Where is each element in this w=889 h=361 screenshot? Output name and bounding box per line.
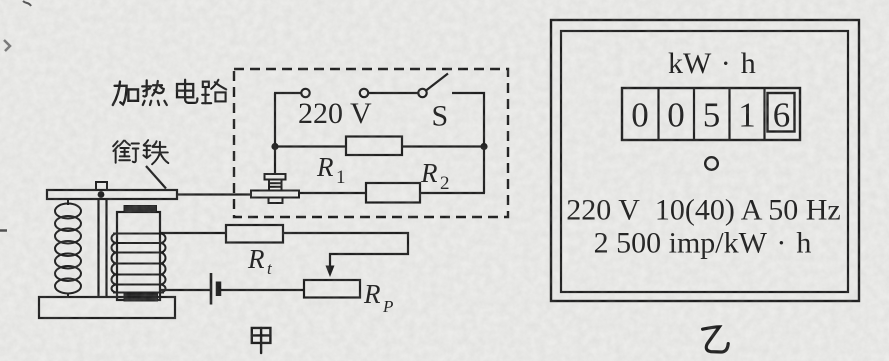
register cell dividers bbox=[659, 88, 765, 140]
label 乙 (diagram B) bbox=[703, 327, 729, 352]
wire switch to right corner bbox=[452, 93, 484, 147]
electromagnet winding bbox=[112, 234, 166, 293]
label 加热电路 (heating circuit) bbox=[113, 80, 226, 105]
switch S blade bbox=[426, 74, 448, 91]
source terminal circle left bbox=[301, 89, 309, 97]
scan artifact left edge bbox=[4, 40, 10, 51]
spring bbox=[55, 199, 81, 297]
source terminal circle right bbox=[360, 89, 368, 97]
pivot block bbox=[96, 182, 107, 190]
electromagnet core bbox=[117, 212, 160, 300]
label 甲 (diagram A) bbox=[252, 328, 271, 353]
dashed box (heating circuit boundary) bbox=[234, 69, 508, 217]
scan artifact top-left bbox=[23, 1, 31, 6]
electromagnet top pole cap bbox=[124, 206, 157, 213]
resistor R1 bbox=[346, 137, 402, 156]
register digits bbox=[631, 96, 790, 135]
resistor R2 bbox=[366, 183, 420, 203]
meter outer box bbox=[551, 20, 859, 301]
node junction right bbox=[480, 143, 487, 150]
wire source to switch bbox=[368, 92, 418, 94]
relay contact bottom tab bbox=[269, 198, 283, 204]
armature bar bbox=[47, 190, 177, 199]
support post bbox=[99, 199, 107, 297]
node junction left bbox=[271, 143, 278, 150]
wire mid left bbox=[275, 145, 346, 147]
paper scan noise bbox=[0, 0, 1, 1]
wire top to source terminal bbox=[274, 92, 301, 94]
battery long plate bbox=[210, 273, 213, 305]
wire contact to R2 bbox=[299, 192, 366, 194]
wiper arrowhead bbox=[326, 266, 335, 278]
meter inner box bbox=[561, 31, 848, 292]
wire battery to Rp bbox=[221, 289, 304, 291]
potentiometer Rp bbox=[304, 280, 360, 298]
electromagnet bottom pole cap bbox=[124, 294, 158, 301]
wire coil to Rt bbox=[160, 232, 226, 234]
wire coil to battery bbox=[160, 289, 211, 291]
scan artifact left lower edge bbox=[0, 229, 7, 232]
pivot pin bbox=[98, 191, 105, 198]
armature lever wire to contact bbox=[177, 193, 251, 195]
wire top-left vertical bbox=[274, 93, 276, 147]
relay moving contact bar bbox=[251, 191, 299, 198]
wire right vertical to R2 bbox=[483, 147, 485, 194]
wire Rt to wiper bbox=[283, 233, 408, 270]
register box bbox=[622, 88, 800, 140]
relay fixed contact top plate bbox=[265, 174, 286, 180]
wire R2 to right vertical bbox=[420, 192, 485, 194]
relay contact stack bbox=[269, 180, 282, 191]
switch S pivot circle bbox=[418, 89, 426, 97]
resistor Rt bbox=[226, 225, 283, 243]
wire junction down to contact bbox=[274, 147, 276, 175]
relay base bbox=[39, 297, 175, 318]
wire mid right bbox=[402, 145, 484, 147]
label 衔铁 (armature) bbox=[113, 140, 168, 164]
leader line from armature label bbox=[146, 166, 166, 189]
indicator lamp circle bbox=[705, 157, 718, 170]
battery short plate bbox=[216, 282, 222, 297]
highlight box around last digit bbox=[768, 93, 795, 132]
